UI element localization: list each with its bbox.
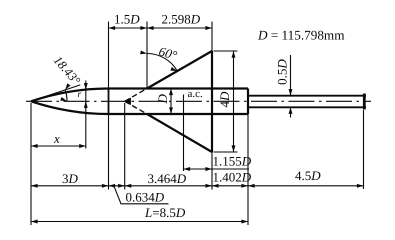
nose upper ogive [31,89,109,102]
arrows 1.5D [109,26,116,30]
leader 0.634D [114,186,169,204]
svg-text:1.5D: 1.5D [114,12,140,27]
body bottom line [109,113,249,115]
arrows 0.634D [109,184,116,188]
extension line 4D top [214,50,238,52]
arrows 4D [232,51,236,58]
arrows 4.5D [248,184,255,188]
arrows 3.464D [125,184,132,188]
svg-text:4D: 4D [217,91,232,108]
extension line a.c. [183,95,185,172]
arrow arc 18.43 lower [60,97,67,101]
dim line 0.5D lower [290,107,292,117]
svg-text:3D: 3D [62,171,79,186]
lower fin leading edge [147,114,212,152]
svg-text:x: x [53,131,60,146]
arrow arc 60 upper [140,50,147,54]
extension line nose junction above [108,22,110,89]
nose lower ogive [31,101,109,114]
dim line L=8.5D [31,221,248,223]
extension line sting end [363,110,365,189]
svg-text:L=8.5D: L=8.5D [144,205,186,220]
svg-text:2.598D: 2.598D [162,12,201,27]
centerline [26,100,371,102]
tangent line 18.43 [31,85,80,101]
dim line 4.5D [248,185,364,187]
arrows 2.598D [147,26,154,30]
svg-text:3.464D: 3.464D [148,171,187,186]
arrows 1.402D [212,184,219,188]
arrow arc 18.43 upper [65,83,70,90]
hidden fin root lower (dashed) [125,101,147,114]
hidden line apex arrowhead [124,98,131,106]
angle arc 18.43 [65,90,67,101]
extension line from nose tip [30,103,32,225]
extension line body end [247,114,249,225]
svg-text:a.c.: a.c. [188,88,204,100]
dim line 2.598D [147,27,212,29]
dim line 1.5D [109,27,148,29]
dim line 4D vertical [233,51,235,152]
nose-body junction line [108,89,110,115]
sting end cap [363,94,366,110]
extension line 4D bottom [214,151,238,153]
body end line [247,89,249,115]
sting bottom line [248,106,366,108]
arrows r [84,83,88,90]
svg-text:D = 115.798mm: D = 115.798mm [257,28,345,43]
angle arc 60 [147,54,177,72]
dim line r lower arrow tail [85,101,87,107]
dim line 1.155D [184,168,250,170]
sting top line [248,95,366,97]
dim line 0.634D [109,185,125,187]
arrows 0.5D [289,89,293,96]
extension line trailing edge above [211,22,213,52]
dim line r upper arrow tail [85,83,87,90]
svg-text:0.634D: 0.634D [126,190,165,205]
arrows 1.155D [184,167,191,171]
hidden fin root upper (dashed) [125,89,147,102]
svg-text:1.155D: 1.155D [213,154,252,169]
svg-text:1.402D: 1.402D [213,169,252,184]
svg-text:r: r [78,90,82,100]
extension line fin apex [146,22,148,89]
dim line 3D [31,185,109,187]
dim line 3.464D [125,185,212,187]
arrow arc 60 lower [170,67,177,71]
dim line 0.5D upper [290,55,292,96]
upper fin leading edge [147,51,212,89]
arrows 3D [31,184,38,188]
arrows L [31,220,38,224]
extension line r station [85,81,87,149]
arrows x [31,144,38,148]
fin trailing edge [211,51,213,152]
extension line hidden apex [124,103,126,190]
extension line nose junction below [108,114,110,190]
dim line x [31,145,86,147]
body top line [109,87,249,89]
svg-text:D: D [155,93,170,104]
dim line D internal vertical [170,89,172,115]
dim line 1.402D [212,185,248,187]
svg-text:0.5D: 0.5D [275,59,290,85]
arrows D internal [169,89,173,96]
extension line trailing edge below [211,152,213,190]
svg-text:4.5D: 4.5D [295,168,321,183]
